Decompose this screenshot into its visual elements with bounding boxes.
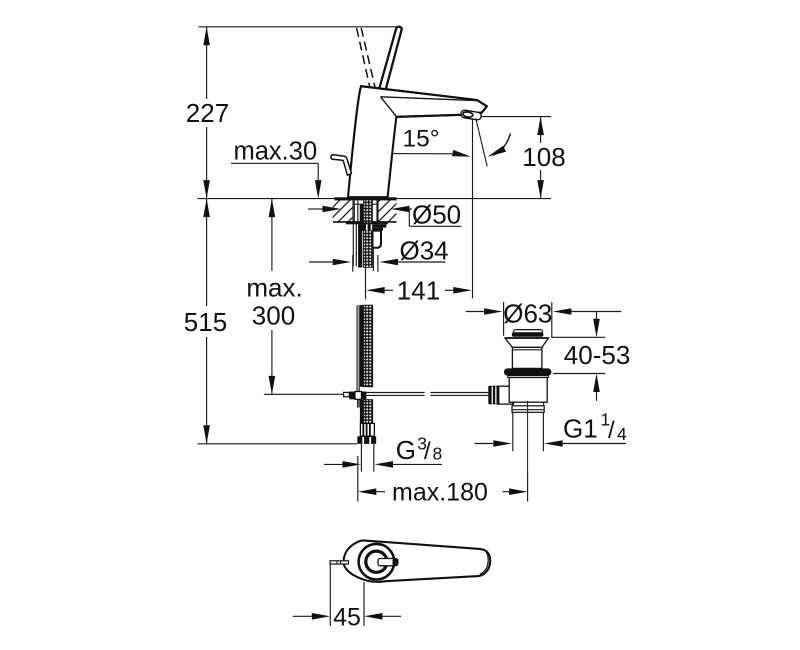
counter hatch right	[378, 200, 397, 221]
countertop line	[198, 197, 552, 200]
hose connection nut G3/8	[357, 436, 376, 444]
handle lever (raised, solid)	[379, 27, 402, 89]
temperature limiter lever on body	[331, 155, 352, 175]
dimension 141	[366, 117, 473, 306]
water stream angle line	[476, 118, 487, 166]
svg-text:max.: max.	[246, 273, 302, 303]
label 515	[184, 307, 227, 337]
svg-text:/: /	[424, 438, 431, 465]
svg-text:141: 141	[397, 276, 440, 306]
horizontal pop-up rod (thin, left)	[264, 393, 344, 395]
shank right lines	[373, 200, 377, 271]
top flange	[505, 338, 549, 347]
svg-text:515: 515	[184, 307, 227, 337]
dimension G1 1/4	[475, 410, 628, 447]
515 bottom reference line	[198, 443, 358, 445]
svg-text:15°: 15°	[403, 126, 440, 153]
G3/8 threaded tube	[361, 444, 373, 472]
label 15deg	[403, 126, 440, 153]
band under ring	[508, 376, 549, 378]
svg-text:4: 4	[617, 424, 627, 444]
dimension Ø63	[466, 299, 622, 339]
mounting nut	[358, 224, 386, 230]
label 227	[186, 98, 229, 128]
dimension max.180	[358, 456, 528, 506]
lever handle top view	[330, 540, 490, 581]
hose elbow outlet below nut	[373, 231, 382, 248]
rod stub at left	[330, 561, 349, 564]
svg-text:40-53: 40-53	[564, 340, 631, 370]
side port	[497, 386, 513, 404]
handle lever (alternate position, dashed)	[357, 28, 375, 87]
15 degree base line with arrow	[394, 150, 472, 160]
15 degree arc arrow	[486, 134, 510, 160]
aerator at spout tip	[460, 110, 481, 121]
dimension 108	[472, 117, 566, 199]
dimension Ø50 with leader	[308, 200, 462, 230]
shank hole edge lines	[353, 200, 378, 221]
svg-text:Ø63: Ø63	[503, 299, 552, 329]
dimension G3/8	[324, 434, 442, 468]
lower ring band	[512, 406, 544, 413]
shank through counter: collar line	[353, 203, 378, 205]
svg-text:227: 227	[186, 98, 229, 128]
seal ring	[504, 368, 551, 375]
center line	[527, 401, 529, 474]
dimension 45	[293, 564, 401, 632]
svg-text:max.180: max.180	[392, 478, 488, 506]
washer under counter	[346, 222, 388, 224]
svg-text:/: /	[608, 417, 615, 444]
hose crimp section	[360, 423, 374, 436]
dimension 227/515 main vertical line	[203, 27, 210, 444]
dimension 40-53	[552, 312, 631, 401]
svg-text:45: 45	[333, 604, 361, 632]
dimension Ø34	[309, 235, 449, 271]
svg-text:max.30: max.30	[234, 138, 318, 166]
svg-text:108: 108	[522, 142, 565, 172]
lower neck	[512, 402, 514, 406]
horizontal rod to drain (double line)	[366, 393, 488, 396]
knurled adjusting nut	[488, 386, 499, 405]
svg-text:G: G	[396, 435, 416, 465]
svg-text:G1: G1	[563, 414, 598, 444]
svg-text:300: 300	[252, 301, 295, 331]
drain valve (pop-up waste)	[488, 330, 551, 474]
neck cylinder	[512, 347, 542, 368]
counter bottom line	[333, 221, 397, 223]
faucet body outline	[348, 86, 487, 197]
pop-up rod clamp fitting	[344, 392, 367, 408]
tailpipe	[512, 412, 514, 451]
supply hose dark bar (upper)	[358, 205, 364, 268]
label max.30 with leader	[231, 138, 322, 199]
svg-text:Ø50: Ø50	[412, 200, 461, 230]
pop-up rod guide lines (upper)	[353, 201, 358, 267]
svg-text:8: 8	[433, 444, 443, 464]
counter hatch left	[333, 200, 354, 221]
dimension max.300	[246, 199, 302, 395]
plug cap	[514, 330, 543, 334]
svg-text:Ø34: Ø34	[400, 235, 449, 265]
top extension line	[199, 26, 401, 28]
supply hose braid (lower section)	[357, 305, 373, 424]
threaded shank braid (upper)	[363, 200, 372, 268]
valve body	[509, 378, 547, 403]
